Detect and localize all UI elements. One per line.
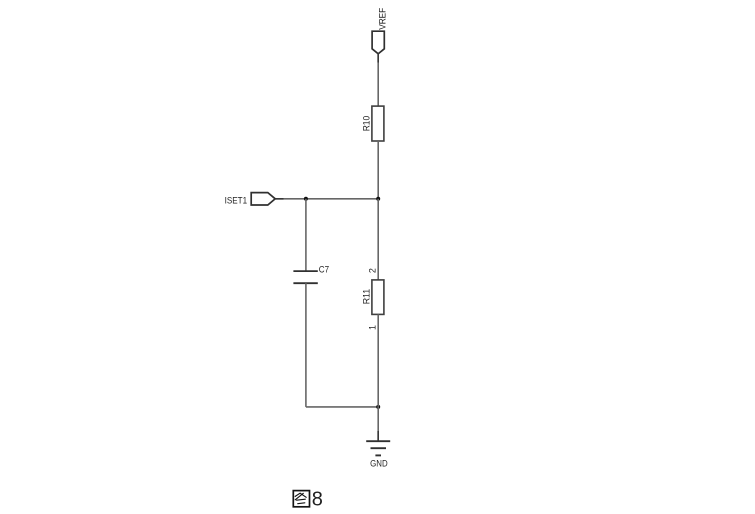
wire C7 to bottom (305, 283, 307, 407)
svg-text:R11: R11 (361, 289, 372, 305)
resistor R11 (361, 280, 384, 315)
wire R10 to node (377, 141, 379, 199)
node junction bottom (376, 405, 380, 409)
svg-text:2: 2 (368, 268, 378, 273)
port VREF (372, 8, 388, 54)
wire bottom horizontal (306, 406, 378, 408)
port ISET1 (225, 193, 276, 207)
svg-text:1: 1 (368, 325, 378, 330)
svg-text:C7: C7 (319, 265, 329, 275)
wire bottom node to ground (377, 407, 379, 441)
wire ISET1 horizontal (275, 198, 378, 200)
svg-text:ISET1: ISET1 (225, 196, 248, 207)
capacitor C7 (293, 265, 329, 284)
wire node to C7 (305, 199, 307, 271)
resistor R10 (361, 106, 384, 141)
wire node to R11 pin2 (377, 199, 379, 280)
caption 图8 (293, 491, 309, 507)
node junction right (376, 197, 380, 201)
svg-text:GND: GND (370, 459, 388, 470)
svg-text:VREF: VREF (377, 8, 388, 30)
svg-text:8: 8 (312, 489, 323, 511)
wire VREF to R10 (377, 54, 379, 106)
ground (366, 441, 390, 469)
svg-text:R10: R10 (361, 116, 372, 132)
node junction left (304, 197, 308, 201)
wire R11 to bottom node (377, 314, 379, 407)
